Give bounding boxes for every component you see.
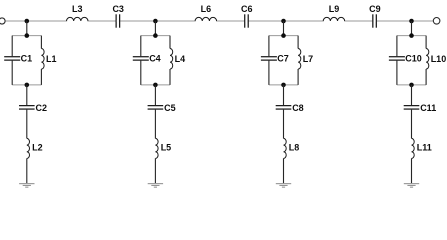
- svg-text:L6: L6: [201, 4, 212, 14]
- svg-text:L7: L7: [303, 54, 314, 64]
- svg-text:C6: C6: [241, 4, 253, 14]
- svg-text:L11: L11: [417, 142, 432, 152]
- svg-text:C5: C5: [164, 103, 176, 113]
- svg-text:L3: L3: [72, 4, 83, 14]
- svg-text:C10: C10: [405, 53, 422, 63]
- svg-text:C7: C7: [277, 53, 289, 63]
- svg-text:C3: C3: [112, 4, 124, 14]
- svg-text:L10: L10: [431, 54, 447, 64]
- svg-text:L4: L4: [175, 54, 186, 64]
- svg-text:L5: L5: [161, 142, 172, 152]
- svg-text:C8: C8: [292, 103, 304, 113]
- svg-text:C11: C11: [420, 103, 436, 113]
- svg-text:C4: C4: [149, 53, 161, 63]
- svg-text:L1: L1: [46, 54, 57, 64]
- svg-text:C9: C9: [369, 4, 381, 14]
- svg-text:L2: L2: [32, 142, 43, 152]
- svg-text:L8: L8: [289, 142, 300, 152]
- svg-text:L9: L9: [329, 4, 340, 14]
- svg-text:C2: C2: [36, 103, 48, 113]
- svg-text:C1: C1: [21, 53, 33, 63]
